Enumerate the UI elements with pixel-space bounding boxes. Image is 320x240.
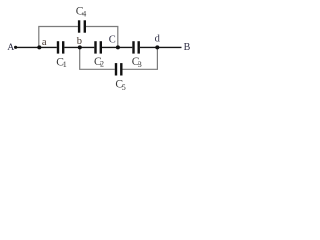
svg-text:4: 4 — [82, 9, 86, 18]
capacitor C2 — [96, 41, 101, 53]
node d junction dot — [155, 45, 159, 49]
svg-text:a: a — [42, 37, 47, 48]
node b junction dot — [78, 45, 82, 49]
capacitor C4 — [79, 20, 85, 32]
capacitor C5 — [116, 63, 121, 75]
node C junction dot — [116, 45, 120, 49]
svg-text:1: 1 — [63, 60, 67, 69]
capacitor C1 — [58, 41, 63, 53]
svg-text:d: d — [155, 34, 161, 45]
capacitor C3 — [134, 41, 139, 53]
svg-text:5: 5 — [122, 83, 126, 92]
node a junction dot — [37, 45, 41, 49]
wire bottom branch b-to-d with C5 gap — [80, 47, 158, 69]
svg-text:b: b — [77, 36, 82, 47]
svg-text:A: A — [7, 42, 14, 53]
svg-text:B: B — [184, 42, 191, 53]
wire main A-to-B horizontal segments — [16, 46, 182, 48]
terminal dot A — [14, 46, 17, 49]
svg-text:C: C — [109, 35, 116, 46]
wire top branch a-to-C with C4 gap — [39, 27, 118, 48]
svg-text:3: 3 — [138, 60, 142, 69]
svg-text:2: 2 — [100, 59, 104, 68]
